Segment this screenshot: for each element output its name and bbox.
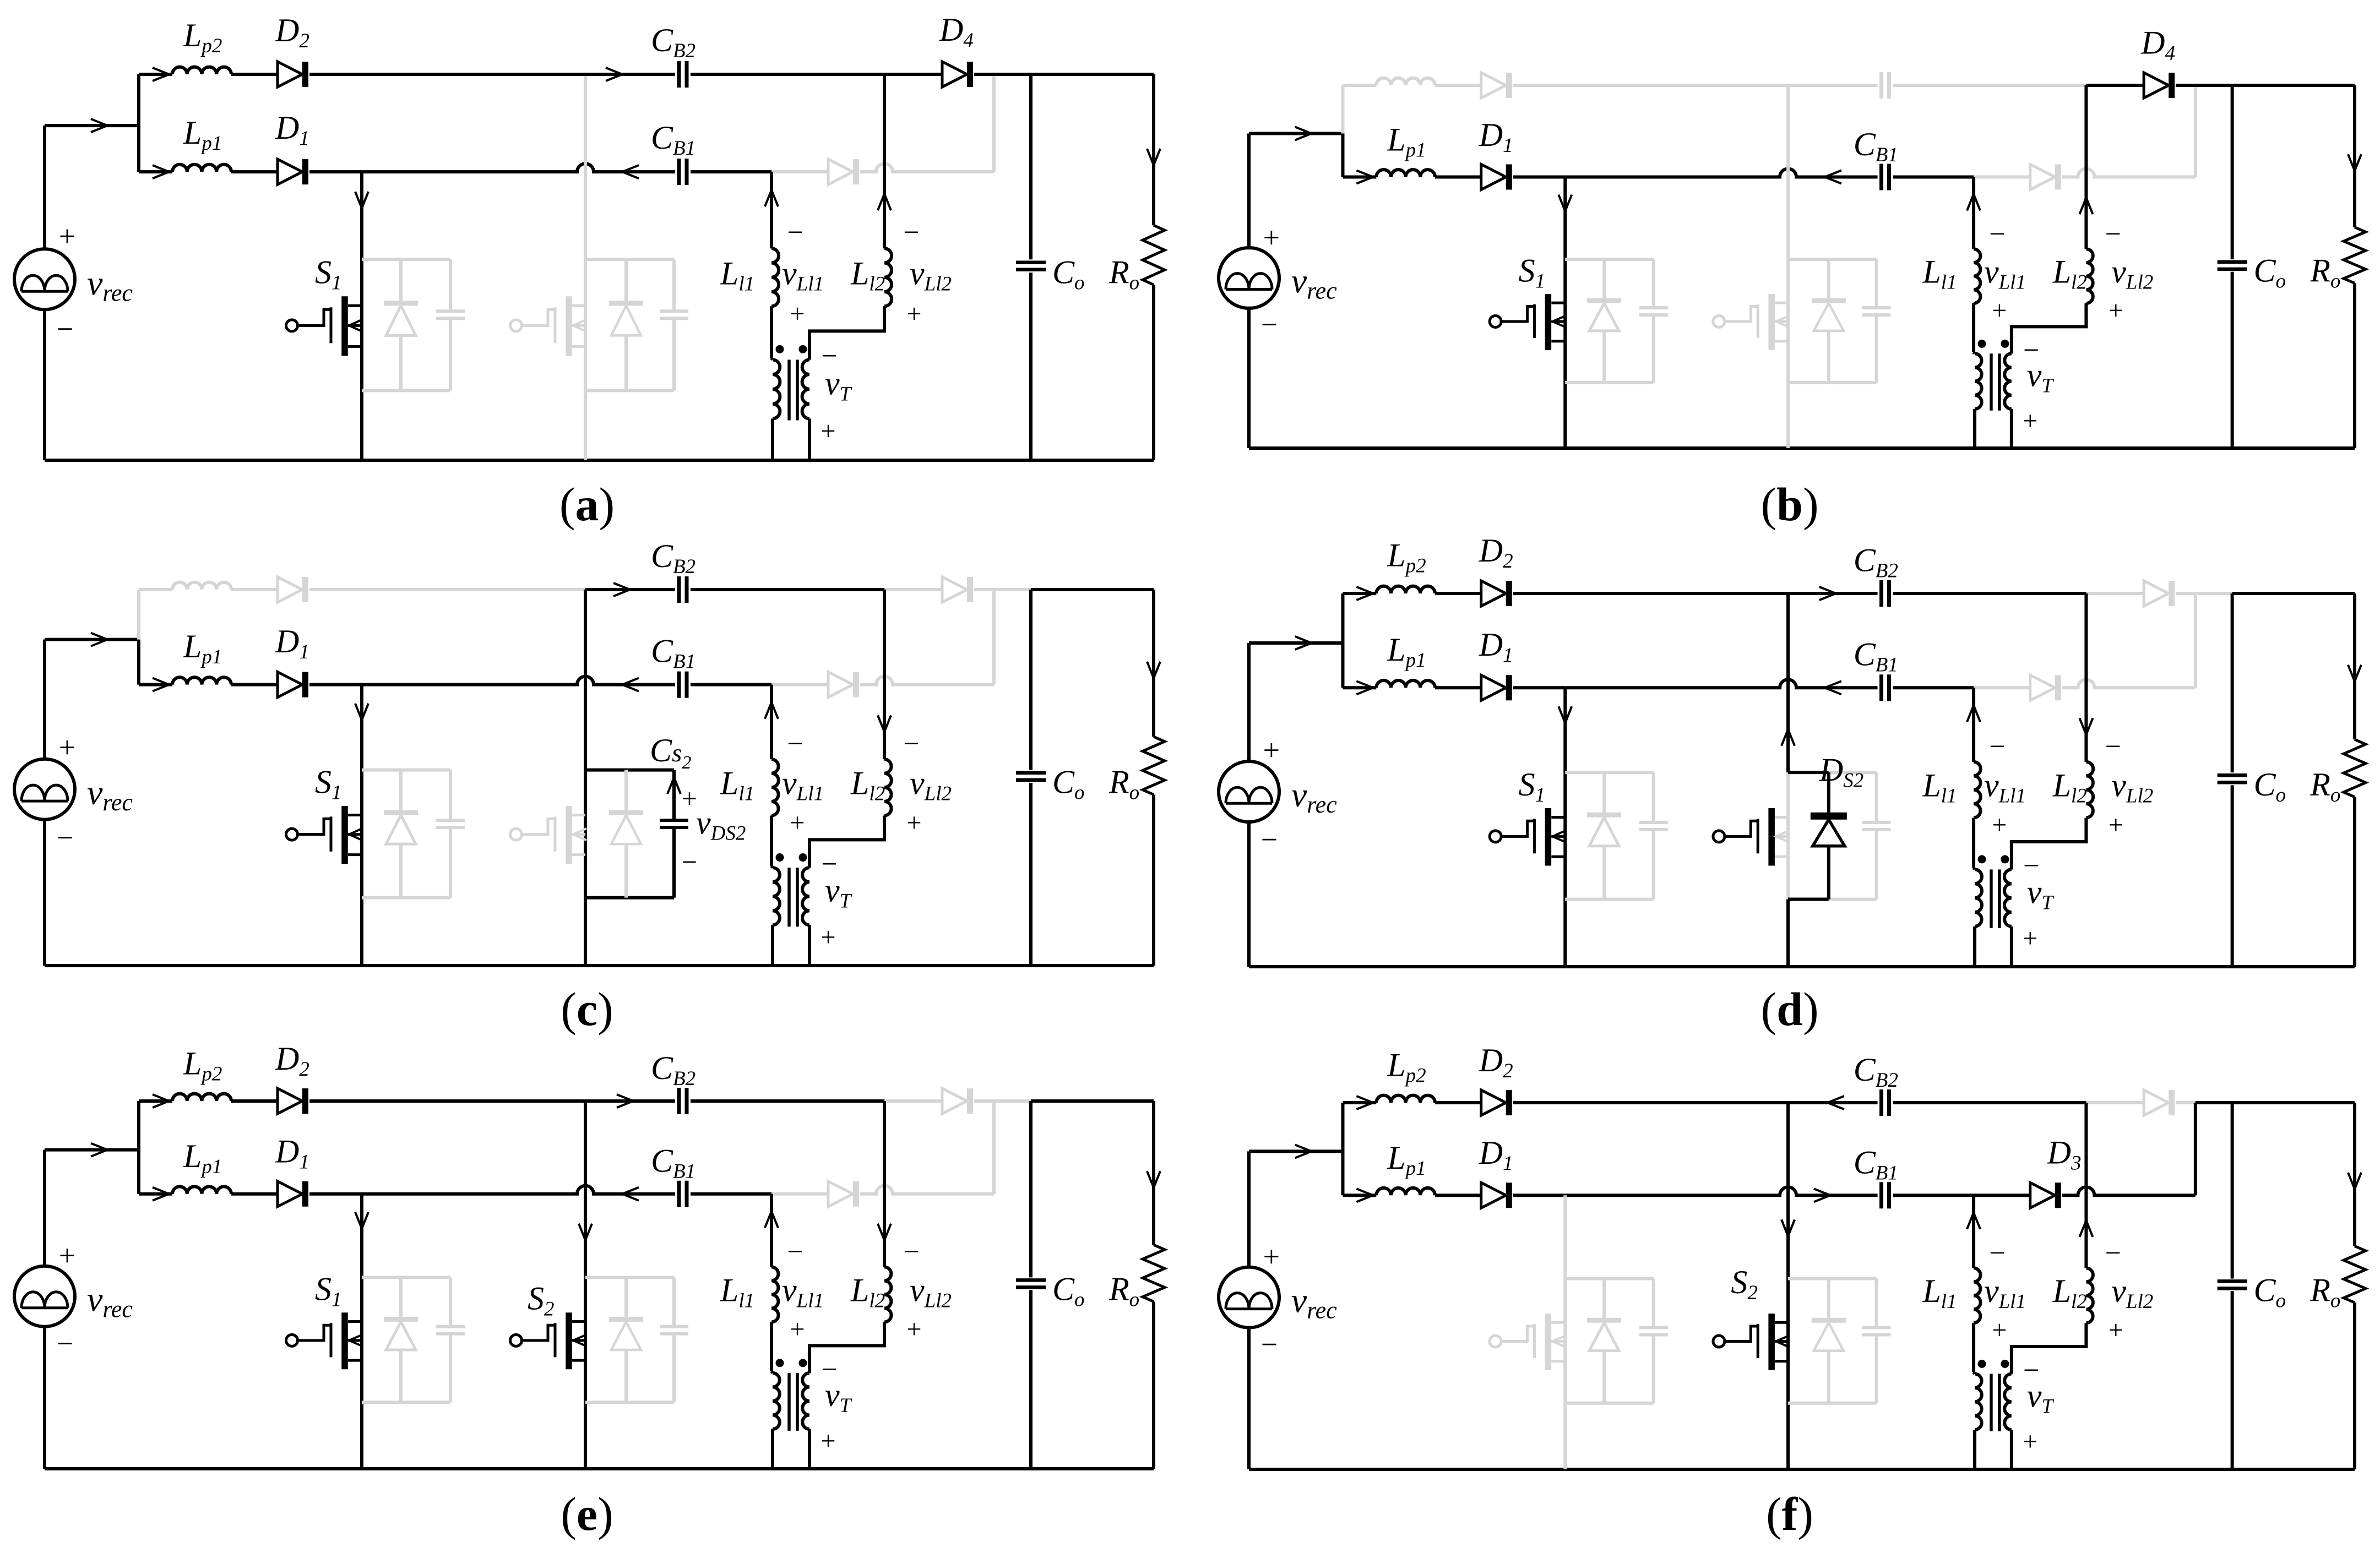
svg-text:−: −: [57, 312, 73, 345]
panel c: wire input stub: [45, 638, 139, 641]
panel b: S_1 module outline bottom: [1565, 381, 1654, 384]
panel f: wire L_l1 to primary winding: [1972, 1323, 1975, 1372]
panel e: arrow on C_B2 branch: [617, 1094, 633, 1108]
panel d: wire L_l2 node to D_4: [2086, 592, 2144, 595]
panel d: inductor L_p1: [1376, 680, 1435, 688]
panel d: diode D_1: [1481, 675, 1506, 700]
panel d: wire top branch D_2 to S_2 node: [1513, 592, 1788, 595]
panel f: S_1 parasitic capacitor: [1652, 1278, 1655, 1327]
svg-text:(a): (a): [559, 478, 615, 531]
panel a: wire L_l2 riser to top node: [883, 74, 886, 248]
panel a: wire D_4 to output node: [974, 73, 994, 76]
panel b: S_1 parasitic capacitor: [1652, 259, 1655, 308]
svg-text:−: −: [1989, 1238, 2005, 1269]
panel a: wire L_p1 to D_1: [231, 170, 278, 173]
panel e: wire L_l1 to primary winding: [770, 1322, 773, 1371]
panel c: transistor S_1 (MOSFET): [286, 829, 298, 840]
svg-text:−: −: [821, 340, 837, 372]
svg-text:−: −: [903, 728, 919, 760]
panel b: wire output node to C_o: [2196, 84, 2232, 87]
panel e: wire C_B2 to L_l2 node: [691, 1099, 884, 1103]
panel b: arrow input current: [1295, 127, 1312, 140]
panel b: wire L_l2 riser to top node: [2084, 85, 2088, 249]
svg-text:(d): (d): [1760, 983, 1818, 1036]
panel b: wire secondary top jog to L_l2: [2012, 303, 2086, 353]
panel e: wire left rail top (source to input node): [43, 1150, 46, 1268]
panel c: wire S_2 node to C_B2: [585, 588, 675, 591]
panel f: transformer polarity dot primary: [1977, 1360, 1986, 1368]
panel a: arrow current into L_p2: [153, 68, 169, 81]
panel b: wire L_l2 node to D_4: [2086, 84, 2144, 87]
panel b: wire L_l1 corner to D_3 (hops over L_l2 riser): [1974, 176, 2030, 179]
svg-text:+: +: [820, 416, 835, 445]
panel c: wire D_3 output riser: [992, 591, 996, 685]
panel f: wire D_3 output riser: [2194, 1103, 2197, 1195]
panel c: wire L_p1 branch start: [139, 683, 172, 686]
panel e: capacitor C_B2: [677, 1088, 681, 1114]
panel c: capacitor C_B1: [677, 672, 681, 698]
panel c: transistor S_2 (MOSFET): [510, 829, 522, 840]
panel f: wire C_B2 to L_l2 node: [1893, 1101, 2086, 1104]
panel d: arrow on C_B2 branch: [1819, 587, 1836, 600]
panel c: wire L_l1 corner to D_3 (hops over L_l2 riser): [771, 683, 828, 686]
panel d: wire left rail top (source to input node): [1247, 643, 1251, 762]
panel b: wire L_l1 riser: [1972, 177, 1975, 249]
svg-text:−: −: [2105, 1238, 2121, 1269]
panel e: arrow output current: [1147, 1171, 1160, 1187]
panel a: S_1 body diode: [399, 259, 403, 301]
panel c: wire left rail top (source to input node): [43, 640, 46, 760]
panel b: wire C_o to right rail top: [2232, 84, 2355, 87]
panel b: leakage inductor L_l2: [2086, 249, 2093, 303]
panel d: wire L_l1 to primary winding: [1972, 818, 1975, 868]
svg-text:−: −: [821, 1354, 837, 1385]
panel f: arrow current into L_p1: [1356, 1189, 1373, 1202]
panel b: wire S_1 node to C_B1 (hops over S_2 drain): [1565, 169, 1877, 177]
panel c: wire C_o to right rail top: [1031, 588, 1154, 591]
panel e: wire split vertical lower (input to L_p1 branch): [137, 1150, 140, 1194]
panel d: arrow into L_l1: [1967, 705, 1980, 722]
panel d: wire L_p1 branch start: [1343, 686, 1376, 689]
panel d: arrow on S_2 drain vertical: [1781, 729, 1795, 746]
panel a: inductor L_p2: [172, 67, 231, 74]
panel f: wire top branch D_2 to S_2 node: [1513, 1101, 1788, 1104]
panel c: arrow current into L_p1: [153, 678, 169, 691]
panel d: arrow on C_B1 branch: [1825, 681, 1841, 694]
svg-text:(b): (b): [1760, 478, 1818, 531]
panel c: wire L_l1 riser: [770, 685, 773, 760]
panel a: wire S_2 module spine: [584, 259, 587, 390]
panel c: S_2 body diode: [624, 770, 628, 810]
panel b: S_2 module outline top: [1788, 258, 1829, 261]
panel e: wire input stub: [45, 1148, 139, 1152]
panel d: wire primary winding to bottom rail: [1973, 927, 1976, 967]
panel e: wire S_1 node to C_B1 (hops over S_2 drain): [362, 1186, 675, 1194]
panel d: wire L_l1 corner to D_3 (hops over L_l2 riser): [1974, 686, 2030, 689]
svg-text:+: +: [906, 1315, 921, 1344]
panel c: S_1 body diode: [399, 770, 403, 810]
panel c: wire bottom rail: [45, 964, 1154, 967]
panel b: arrow on L_l2 riser: [2079, 198, 2093, 214]
panel d: arrow current into L_p2: [1356, 587, 1373, 600]
panel a: arrow output current: [1147, 149, 1160, 165]
svg-text:−: −: [1989, 219, 2005, 250]
svg-text:(f): (f): [1766, 1487, 1813, 1540]
panel c: arrow into S_1 drain: [355, 704, 368, 720]
panel f: wire left rail bottom: [1247, 1326, 1251, 1469]
svg-text:+: +: [2023, 1427, 2037, 1456]
panel a: transformer core: [787, 359, 791, 420]
panel f: wire L_l2 node to D_4: [2086, 1101, 2144, 1104]
panel d: wire L_l2 riser to top node: [2084, 593, 2088, 762]
panel f: arrow on C_B2 branch: [1828, 1096, 1844, 1109]
panel b: wire C_B2 to L_l2 node: [1893, 84, 2086, 87]
panel b: inductor L_p2: [1376, 78, 1435, 85]
panel a: resistor R_o: [1143, 225, 1165, 285]
panel d: S_1 module outline top: [1565, 771, 1654, 774]
panel c: wire S_1 drain vertical: [360, 685, 363, 966]
panel e: arrow into L_l1: [765, 1211, 778, 1228]
svg-text:−: −: [57, 821, 73, 854]
panel d: arrow output current: [2348, 665, 2361, 682]
panel d: diode D_4: [2144, 581, 2169, 606]
panel e: wire S_2 module spine: [584, 1277, 587, 1402]
panel a: wire split vertical lower (input to L_p1 branch): [137, 126, 140, 172]
panel c: capacitor C_S2: [672, 770, 676, 821]
panel d: diode D_2: [1481, 581, 1506, 606]
svg-text:+: +: [59, 220, 75, 253]
panel f: wire left rail top (source to input node): [1247, 1151, 1251, 1268]
svg-text:+: +: [59, 1239, 75, 1272]
svg-text:+: +: [820, 1426, 835, 1456]
panel b: resistor R_o: [2344, 227, 2366, 284]
panel d: transformer primary winding: [1974, 868, 1975, 869]
panel c: wire C_B1 to L_l1 corner: [691, 683, 771, 686]
panel c: diode D_1: [278, 672, 302, 698]
panel a: S_2 module outline top: [585, 258, 626, 261]
svg-text:−: −: [903, 217, 919, 248]
svg-text:+: +: [2023, 406, 2037, 435]
panel c: wire split vertical lower (input to L_p1 branch): [137, 640, 140, 685]
panel c: wire left rail bottom: [43, 819, 46, 966]
panel f: capacitor C_B2: [1879, 1089, 1883, 1116]
panel c: wire D_4 to output node: [974, 588, 994, 591]
panel f: S_2 parasitic capacitor: [1875, 1278, 1878, 1327]
panel e: wire L_l2 node to D_4: [884, 1099, 942, 1103]
panel e: wire D_4 to output node: [974, 1099, 994, 1103]
panel c: wire C_B2 to L_l2 node: [691, 588, 884, 591]
panel b: wire L_p2 branch start: [1343, 84, 1376, 87]
panel e: transistor S_1 (MOSFET): [286, 1334, 298, 1346]
panel b: S_2 parasitic capacitor: [1875, 259, 1878, 308]
panel a: transistor S_1 (MOSFET): [286, 320, 298, 331]
panel a: S_2 body diode: [624, 259, 628, 301]
svg-text:+: +: [790, 299, 805, 328]
panel e: resistor R_o: [1143, 1245, 1165, 1301]
panel c: arrow on C_B2 branch: [613, 583, 630, 596]
panel f: wire input stub: [1249, 1149, 1343, 1153]
panel a: arrow on C_B2 branch: [606, 68, 622, 81]
panel a: wire C_B2 to L_l2 node: [691, 73, 884, 76]
panel d: S_2 body diode D_S2: [1827, 772, 1830, 813]
panel c: wire L_l1 to primary winding: [770, 815, 773, 866]
panel a: wire secondary winding to bottom rail: [808, 418, 811, 460]
panel d: wire C_B2 to L_l2 node: [1893, 592, 2086, 595]
svg-text:−: −: [1989, 731, 2005, 762]
panel f: wire split vertical upper (input to L_p2 branch): [1341, 1103, 1344, 1151]
panel c: arrow into L_l1: [765, 702, 778, 719]
panel a: wire L_p2 branch start: [139, 73, 172, 76]
panel e: diode D_4: [942, 1088, 967, 1114]
panel f: wire right rail lower: [2353, 1303, 2356, 1469]
panel b: arrow on C_B1 branch: [1825, 171, 1841, 184]
panel d: wire output node to C_o: [2196, 592, 2232, 595]
panel c: diode D_3: [828, 672, 853, 698]
panel d: inductor L_p2: [1376, 586, 1435, 593]
panel d: S_2 parasitic capacitor: [1875, 772, 1878, 822]
panel c: transformer polarity dot primary: [776, 853, 784, 862]
panel a: S_1 module outline top: [362, 258, 450, 261]
panel f: wire split vertical lower (input to L_p1 branch): [1341, 1151, 1344, 1195]
panel c: wire right rail lower: [1152, 794, 1155, 966]
panel c: S_2 module outline top: [585, 769, 626, 772]
panel e: S_2 body diode: [624, 1277, 628, 1317]
panel c: leakage inductor L_l2: [884, 759, 892, 815]
panel e: leakage inductor L_l1: [771, 1267, 779, 1322]
panel a: diode D_4: [942, 62, 967, 87]
svg-text:−: −: [1261, 1328, 1278, 1361]
panel a: wire C_B1 to L_l1 corner: [691, 170, 771, 173]
svg-text:−: −: [2105, 219, 2121, 250]
panel d: wire S_1 node to C_B1 (hops over S_2 drain): [1565, 679, 1877, 688]
panel b: wire S_2 node to C_B2: [1788, 84, 1878, 87]
svg-text:+: +: [906, 299, 921, 328]
panel e: wire S_2 drain vertical upper: [584, 1101, 587, 1277]
panel d: transistor S_2 (MOSFET): [1713, 831, 1725, 842]
panel a: wire D_1 to S_1 node: [309, 170, 362, 173]
panel e: transformer polarity dot secondary: [799, 1359, 807, 1367]
panel b: wire S_2 drain vertical upper: [1786, 87, 1790, 259]
panel e: wire C_o to right rail top: [1031, 1099, 1154, 1103]
svg-text:+: +: [59, 731, 75, 764]
panel c: S_1 module outline top: [362, 769, 450, 772]
panel c: wire L_l2 node to D_4: [884, 588, 942, 591]
panel c: resistor R_o: [1143, 737, 1165, 794]
panel c: wire right rail upper: [1152, 590, 1155, 737]
panel d: capacitor C_B2: [1879, 580, 1883, 607]
panel f: capacitor C_o: [2218, 1279, 2247, 1283]
panel e: transformer core: [787, 1373, 791, 1431]
svg-text:−: −: [787, 728, 803, 760]
panel f: wire secondary top jog to L_l2: [2012, 1323, 2086, 1374]
svg-text:−: −: [1261, 308, 1278, 341]
panel f: inductor L_p1: [1376, 1188, 1435, 1195]
panel c: wire split vertical upper (input to L_p2 branch): [137, 590, 140, 640]
panel f: wire S_2 module spine: [1786, 1278, 1790, 1403]
panel f: wire C_o to right rail top: [2232, 1101, 2355, 1104]
panel a: capacitor C_B2: [677, 61, 681, 88]
panel a: diode D_1: [278, 159, 302, 184]
panel b: wire left rail top (source to input node): [1247, 133, 1251, 249]
panel a: wire right rail upper: [1152, 74, 1155, 225]
panel a: ac source v_rec (rectified sine source): [14, 249, 75, 309]
panel a: transformer polarity dot secondary: [799, 345, 807, 353]
panel a: arrow into L_l1: [765, 190, 778, 206]
panel f: wire S_1 drain vertical: [1563, 1195, 1567, 1469]
panel f: leakage inductor L_l1: [1974, 1268, 1980, 1323]
panel f: transformer polarity dot secondary: [2001, 1360, 2009, 1368]
panel f: arrow on S_2 drain vertical: [1781, 1219, 1795, 1236]
panel e: wire L_p2 to D_2: [231, 1099, 278, 1103]
panel d: leakage inductor L_l2: [2086, 762, 2093, 818]
panel c: wire output node to C_o: [994, 588, 1031, 591]
panel d: wire C_o to right rail top: [2232, 592, 2355, 595]
panel b: wire L_p2 to D_2: [1435, 84, 1481, 87]
panel f: S_2 body diode: [1827, 1278, 1830, 1317]
panel c: arrow input current: [91, 633, 107, 646]
panel a: S_1 parasitic capacitor: [449, 259, 452, 311]
panel d: wire L_p2 to D_2: [1435, 592, 1481, 595]
panel d: wire input stub: [1249, 641, 1343, 645]
panel e: arrow on S_2 drain vertical: [579, 1224, 592, 1240]
panel d: transformer core: [1990, 869, 1993, 928]
panel f: wire L_l2 riser to top node: [2084, 1103, 2088, 1268]
panel c: wire S_2 module spine: [584, 770, 587, 898]
panel e: capacitor C_B1: [677, 1181, 681, 1207]
panel f: arrow output current: [2348, 1173, 2361, 1189]
panel d: arrow into S_1 drain: [1558, 706, 1572, 723]
panel e: wire L_l1 corner to D_3 (hops over L_l2 riser): [771, 1192, 828, 1196]
svg-text:+: +: [1263, 734, 1280, 767]
panel c: capacitor C_B2: [677, 576, 681, 603]
svg-text:−: −: [2023, 1355, 2039, 1386]
panel d: wire secondary top jog to L_l2: [2012, 818, 2086, 869]
svg-text:+: +: [2023, 924, 2037, 953]
panel b: transformer polarity dot primary: [1977, 340, 1986, 348]
panel e: wire C_o branch: [1029, 1101, 1033, 1277]
panel c: S_2 module outline bottom: [585, 896, 626, 900]
panel a: capacitor C_o: [1016, 260, 1046, 264]
panel d: wire bottom rail: [1249, 965, 2355, 968]
panel e: S_1 module outline bottom: [362, 1401, 450, 1404]
panel d: arrow on L_l2 riser: [2079, 718, 2093, 734]
svg-text:+: +: [2109, 1316, 2123, 1345]
panel b: S_2 body diode: [1827, 259, 1830, 298]
panel f: wire L_l1 riser: [1972, 1195, 1975, 1268]
panel e: arrow on C_B1 branch: [622, 1187, 639, 1201]
panel f: wire S_2 drain vertical upper: [1786, 1103, 1790, 1278]
panel e: wire bottom rail: [45, 1467, 1154, 1470]
panel e: wire primary winding to bottom rail: [771, 1429, 774, 1469]
panel a: wire secondary top jog to L_l2: [809, 306, 884, 359]
panel d: wire S_2 module spine: [1786, 772, 1790, 899]
panel f: transformer core: [1990, 1374, 1993, 1431]
panel c: transformer core: [787, 868, 791, 927]
panel a: transistor S_2 (MOSFET): [510, 320, 522, 331]
panel b: wire S_1 drain vertical: [1563, 177, 1567, 448]
svg-text:+: +: [682, 783, 697, 814]
panel b: leakage inductor L_l1: [1974, 249, 1980, 303]
panel c: wire L_l2 riser to top node: [883, 590, 886, 759]
panel d: ac source v_rec (rectified sine source): [1219, 761, 1279, 822]
panel a: transformer primary winding: [771, 358, 773, 359]
panel d: wire L_p2 branch start: [1343, 592, 1376, 595]
panel b: diode D_4: [2144, 73, 2169, 98]
panel f: arrow input current: [1295, 1145, 1312, 1158]
panel d: wire split vertical lower (input to L_p1 branch): [1341, 643, 1344, 688]
panel e: arrow input current: [91, 1143, 107, 1157]
panel a: capacitor C_B1: [677, 159, 681, 185]
svg-text:+: +: [1263, 221, 1280, 254]
panel d: wire C_B1 to L_l1 corner: [1893, 686, 1974, 689]
panel a: wire left rail bottom: [43, 309, 46, 460]
panel f: wire primary winding to bottom rail: [1973, 1430, 1976, 1469]
panel c: wire S_2 drain vertical upper: [584, 590, 587, 770]
panel c: wire S_1 node to C_B1 (hops over S_2 drain): [362, 677, 675, 685]
panel f: transformer secondary winding: [2004, 1374, 2012, 1430]
panel e: wire left rail bottom: [43, 1325, 46, 1469]
panel f: transistor S_1 (MOSFET): [1490, 1336, 1501, 1347]
panel c: transformer secondary winding: [802, 868, 809, 925]
panel d: transistor S_1 (MOSFET): [1490, 831, 1501, 842]
panel f: diode D_1: [1481, 1183, 1506, 1208]
panel d: wire L_p1 to D_1: [1435, 686, 1481, 689]
panel a: wire S_2 drain vertical upper: [584, 76, 587, 259]
panel f: S_2 module outline bottom: [1788, 1402, 1829, 1405]
svg-text:−: −: [1261, 823, 1278, 856]
svg-text:+: +: [1992, 296, 2007, 325]
panel f: wire S_2 source vertical lower: [1786, 1403, 1790, 1469]
panel e: S_2 parasitic capacitor: [672, 1277, 676, 1327]
panel f: wire L_l1 corner to D_3 (hops over L_l2 riser): [1974, 1194, 2030, 1197]
svg-text:+: +: [790, 1315, 805, 1344]
panel a: wire primary winding to bottom rail: [771, 418, 774, 460]
panel e: wire S_2 source vertical lower: [584, 1402, 587, 1469]
panel d: transformer polarity dot secondary: [2001, 855, 2009, 863]
panel a: inductor L_p1: [172, 165, 231, 172]
svg-text:−: −: [787, 1236, 803, 1268]
panel c: capacitor C_o: [1016, 771, 1046, 775]
panel b: S_1 body diode: [1602, 259, 1606, 298]
panel f: S_1 module outline top: [1565, 1277, 1654, 1280]
panel b: diode D_1: [1481, 165, 1506, 190]
panel b: arrow into L_l1: [1967, 194, 1980, 211]
panel a: S_2 module outline bottom: [585, 389, 626, 392]
panel c: arrow into C_S2: [667, 777, 681, 794]
panel b: wire right rail upper: [2353, 85, 2356, 227]
panel b: wire L_p1 to D_1: [1435, 176, 1481, 179]
panel f: capacitor C_B1: [1879, 1182, 1883, 1208]
panel a: wire split vertical upper (input to L_p2 branch): [137, 74, 140, 126]
panel a: diode D_2: [278, 62, 302, 87]
panel c: wire secondary top jog to L_l2: [809, 815, 884, 868]
panel d: wire D_4 to output node: [2176, 592, 2196, 595]
panel d: wire S_2 drain vertical upper: [1786, 593, 1790, 772]
panel e: wire secondary winding to bottom rail: [808, 1429, 811, 1469]
panel f: wire L_p2 branch start: [1343, 1101, 1376, 1104]
panel d: arrow current into L_p1: [1356, 681, 1373, 694]
panel e: S_2 module outline bottom: [585, 1401, 626, 1404]
panel a: wire output node to C_o: [994, 73, 1031, 76]
panel f: wire C_B1 to L_l1 corner: [1893, 1194, 1974, 1197]
svg-text:−: −: [2105, 731, 2121, 762]
panel b: arrow output current: [2348, 154, 2361, 171]
panel a: wire C_o to right rail top: [1031, 73, 1154, 76]
panel b: wire D_4 to output node: [2176, 84, 2196, 87]
panel e: wire D_3 output riser: [992, 1103, 996, 1194]
panel f: wire D_4 to output node: [2176, 1101, 2196, 1104]
panel a: wire S_1 drain vertical: [360, 172, 363, 460]
